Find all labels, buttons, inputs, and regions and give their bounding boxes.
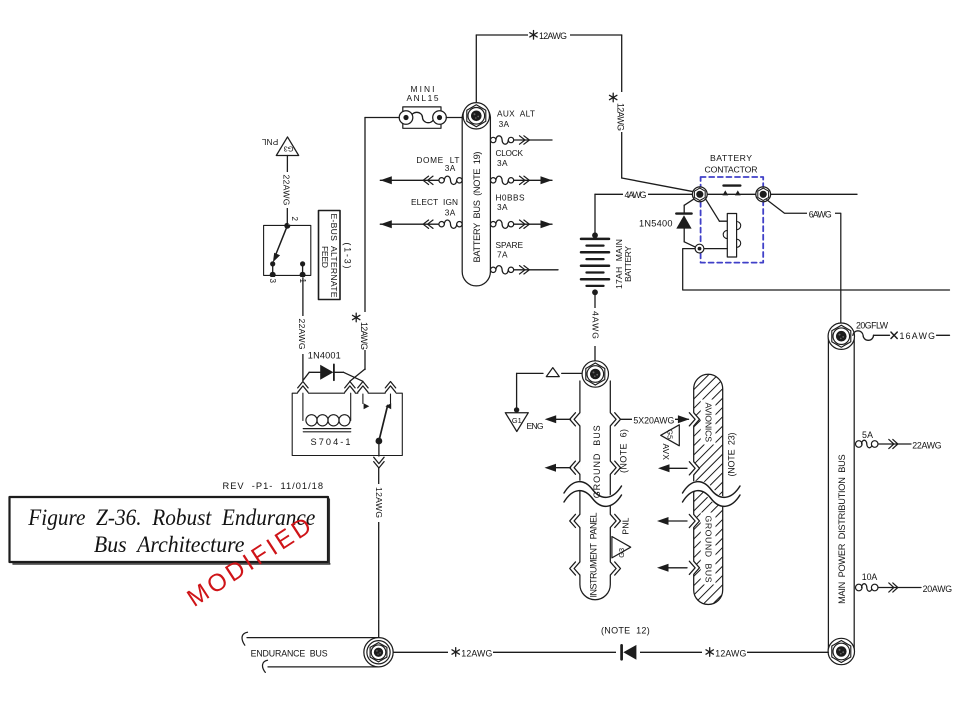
contactor small terminal <box>695 244 704 253</box>
svg-text:(NOTE 23): (NOTE 23) <box>727 433 737 477</box>
terminal: ground bus stud <box>582 361 608 387</box>
svg-text:AVX: AVX <box>661 444 671 461</box>
wire: between contactor terminals <box>700 193 763 195</box>
terminal: main bus bottom stud <box>828 638 854 664</box>
svg-text:20GFLW: 20GFLW <box>856 321 889 331</box>
wire: ANL15 right terminal to battery bus <box>446 117 464 119</box>
wire: relay output to endurance bus (12AWG) <box>378 468 380 638</box>
svg-text:3A: 3A <box>499 119 510 129</box>
wire: feeder vertical drop to contactor <box>621 35 623 178</box>
svg-text:CLOCK: CLOCK <box>496 148 524 158</box>
wire: avionics bus feed row3 <box>668 520 687 522</box>
relay core lines <box>303 428 350 430</box>
svg-text:22AWG: 22AWG <box>912 440 941 450</box>
svg-text:12AWG: 12AWG <box>359 322 369 350</box>
svg-text:GROUND BUS: GROUND BUS <box>704 516 714 583</box>
ground G5 AVX (avionics) <box>661 425 680 446</box>
svg-text:12AWG: 12AWG <box>374 487 384 518</box>
svg-text:AUX ALT: AUX ALT <box>497 109 535 119</box>
svg-text:G1: G1 <box>512 416 522 425</box>
svg-text:FEED: FEED <box>320 246 330 268</box>
svg-text:3A: 3A <box>445 208 456 218</box>
svg-text:2: 2 <box>290 217 299 222</box>
label *12AWG (left) <box>448 647 493 658</box>
label *12AWG (right) <box>702 647 747 658</box>
svg-text:REV -P1- 11/01/18: REV -P1- 11/01/18 <box>223 481 324 491</box>
switch contact (arm target) <box>270 261 275 266</box>
ground bus row4 right tab <box>610 561 617 575</box>
relay contact NO stub <box>390 394 392 404</box>
svg-text:3A: 3A <box>497 158 508 168</box>
svg-text:6AWG: 6AWG <box>809 209 832 219</box>
label: E-BUS ALTERNATE FEED box <box>319 211 341 300</box>
wire: battery bus top riser <box>475 35 477 104</box>
svg-text:4AWG: 4AWG <box>625 190 647 200</box>
svg-text:Figure Z-36. Robust Enduran: Figure Z-36. Robust Endurance <box>27 505 315 530</box>
wire: E-bus alternate feed vertical <box>364 118 366 370</box>
bus: BATTERY BUS (NOTE 19) <box>462 117 490 286</box>
relay coil <box>302 393 304 420</box>
label *12AWG (top feeder) <box>528 29 570 41</box>
svg-text:BATTERY: BATTERY <box>623 246 633 282</box>
terminal: battery bus stud <box>463 103 489 129</box>
wire: endurance feeder bottom run <box>393 651 828 653</box>
contactor main terminal (bus side) <box>756 187 771 202</box>
relay S704-1 terminals (fast-on tabs) <box>298 382 308 388</box>
svg-text:1N5400: 1N5400 <box>639 218 673 228</box>
relay contact NC stub <box>362 394 364 404</box>
relay S704-1 body <box>292 393 402 455</box>
svg-text:PNL: PNL <box>621 517 631 534</box>
label *12AWG (on E-bus alternate feed wire) <box>357 312 372 350</box>
ground bus row3 tab <box>574 514 581 528</box>
switch terminal 3 <box>270 272 276 278</box>
switch arm 2-3 <box>276 226 287 254</box>
svg-text:12AWG: 12AWG <box>715 648 746 658</box>
ground bus row2 left arrow <box>552 467 571 469</box>
wire: battery negative to ground bus (4AWG) <box>594 292 596 364</box>
bus: ENDURANCE BUS <box>247 638 379 667</box>
title box shadow <box>13 563 330 565</box>
wire: diode cathode to relay terminal (crossover) <box>344 372 363 381</box>
svg-text:ANL15: ANL15 <box>407 93 439 103</box>
label *12AWG (vertical, on feeder) <box>614 92 629 132</box>
bus: GROUND BUS / INSTRUMENT PANEL <box>580 381 610 600</box>
svg-text:CONTACTOR: CONTACTOR <box>705 165 758 175</box>
wire: E-bus feed to relay coil terminal (crossover) <box>350 369 365 381</box>
svg-text:G3: G3 <box>284 144 294 153</box>
wire: avionics bus feed row4 <box>668 567 687 569</box>
symbol: future ground (open triangle) <box>546 368 559 377</box>
bus: AVIONICS GROUND BUS (hatched) <box>694 374 723 604</box>
title box <box>10 497 329 562</box>
svg-text:BATTERY: BATTERY <box>710 153 752 163</box>
switch contact 1 upper <box>300 261 305 266</box>
svg-text:7A: 7A <box>497 249 508 259</box>
svg-text:(1-3): (1-3) <box>342 243 352 269</box>
break: avionics bus continuation squiggle <box>683 486 741 502</box>
wire: 5X20AWG ground bus to avionics bus <box>621 418 689 420</box>
endurance bus break marks <box>242 632 267 672</box>
diode D endurance feed <box>616 644 640 661</box>
label X 16AWG <box>891 332 897 338</box>
relay output tab (down) <box>374 462 384 468</box>
wire: G1 drop <box>516 373 518 410</box>
terminal: main bus top stud <box>828 323 854 349</box>
wire: switch terminal 1 down to relay (22AWG) <box>302 278 304 381</box>
svg-text:G3: G3 <box>617 548 626 558</box>
wire: relay common to box bottom <box>378 441 380 456</box>
svg-text:12AWG: 12AWG <box>615 103 625 131</box>
svg-text:12AWG: 12AWG <box>461 648 492 658</box>
ground G3 PNL (rotated, panel feed source) <box>276 137 298 156</box>
avionics bus tab notches <box>693 412 700 426</box>
svg-text:3A: 3A <box>497 202 508 212</box>
svg-text:INSTRUMENT PANEL: INSTRUMENT PANEL <box>588 513 598 598</box>
wire: PNL ground to switch terminal 2 (22AWG) <box>286 156 288 226</box>
contactor contact bar <box>724 184 741 186</box>
wire: E-bus feed line to ANL15 left terminal <box>365 117 399 119</box>
ground bus row2 right tab <box>610 461 617 475</box>
svg-text:GROUND BUS: GROUND BUS <box>592 425 602 498</box>
svg-text:ENG: ENG <box>527 421 544 431</box>
wire: contactor coil ground run <box>683 249 950 290</box>
ground bus row4 tab <box>574 561 581 575</box>
battery contactor enclosure (dashed) <box>701 177 764 263</box>
svg-text:22AWG: 22AWG <box>281 175 291 206</box>
svg-text:(NOTE 12): (NOTE 12) <box>601 625 650 635</box>
wire: 6AWG contactor to main bus <box>767 200 841 324</box>
wire: 4AWG battery to contactor <box>595 193 692 195</box>
svg-text:(NOTE 6): (NOTE 6) <box>618 429 628 473</box>
bus: MAIN POWER DISTRIBUTION BUS <box>828 323 854 664</box>
svg-text:22AWG: 22AWG <box>297 319 307 350</box>
wire: battery positive riser <box>594 194 596 235</box>
switch: E-bus alternate feed toggle <box>264 225 311 275</box>
svg-text:ENDURANCE BUS: ENDURANCE BUS <box>251 649 328 659</box>
wire: ground bus to G1 run <box>562 372 583 374</box>
wire: top 12AWG feeder horizontal <box>476 34 621 36</box>
wire: contactor coil feed <box>706 199 720 221</box>
svg-text:20AWG: 20AWG <box>923 584 953 594</box>
svg-text:S704-1: S704-1 <box>311 437 351 447</box>
svg-text:ELECT IGN: ELECT IGN <box>411 197 458 207</box>
break: ground bus continuation squiggle <box>564 486 622 502</box>
battery B 17AH MAIN BATTERY <box>592 232 598 238</box>
svg-text:MAIN POWER DISTRIBUTION BUS: MAIN POWER DISTRIBUTION BUS <box>837 454 847 604</box>
ground bus row3 right tab <box>610 514 617 528</box>
svg-text:PNL: PNL <box>261 137 278 146</box>
avionics bus name bands <box>701 400 716 445</box>
wire: contactor output stub right <box>771 193 857 195</box>
relay armature <box>379 406 388 442</box>
svg-text:1N4001: 1N4001 <box>308 351 341 361</box>
svg-text:3: 3 <box>268 279 277 284</box>
ground bus row1 left arrow (to ENG loads) <box>552 418 571 420</box>
svg-text:5A: 5A <box>862 430 873 440</box>
contactor main terminal (battery side) <box>692 187 707 202</box>
svg-text:AVIONICS: AVIONICS <box>704 403 714 443</box>
svg-text:16AWG: 16AWG <box>900 331 936 341</box>
svg-text:Bus Architecture: Bus Architecture <box>94 532 245 557</box>
diode D 1N4001 (relay coil flyback) <box>303 372 309 380</box>
svg-text:12AWG: 12AWG <box>539 31 567 41</box>
svg-text:BATTERY BUS (NOTE 19): BATTERY BUS (NOTE 19) <box>472 152 482 263</box>
contactor coil <box>727 214 736 258</box>
wire: avionics bus feed row2 <box>669 467 687 469</box>
switch terminal 2 <box>284 223 290 229</box>
wire: coil return to small terminal <box>705 248 728 250</box>
svg-text:10A: 10A <box>862 572 878 582</box>
svg-text:3A: 3A <box>445 163 456 173</box>
svg-text:5X20AWG: 5X20AWG <box>633 415 674 425</box>
terminal: endurance bus stud <box>367 641 390 664</box>
wire: feeder diagonal into contactor terminal <box>622 178 695 192</box>
svg-text:G5: G5 <box>665 429 674 439</box>
svg-text:4AWG: 4AWG <box>590 311 600 339</box>
ground G1 ENG <box>505 413 528 432</box>
switch terminal 1 <box>300 272 306 278</box>
ground G3 PNL (instrument panel ground) <box>612 537 631 558</box>
junction dot at G1 <box>514 407 519 412</box>
relay common junction <box>376 438 383 445</box>
